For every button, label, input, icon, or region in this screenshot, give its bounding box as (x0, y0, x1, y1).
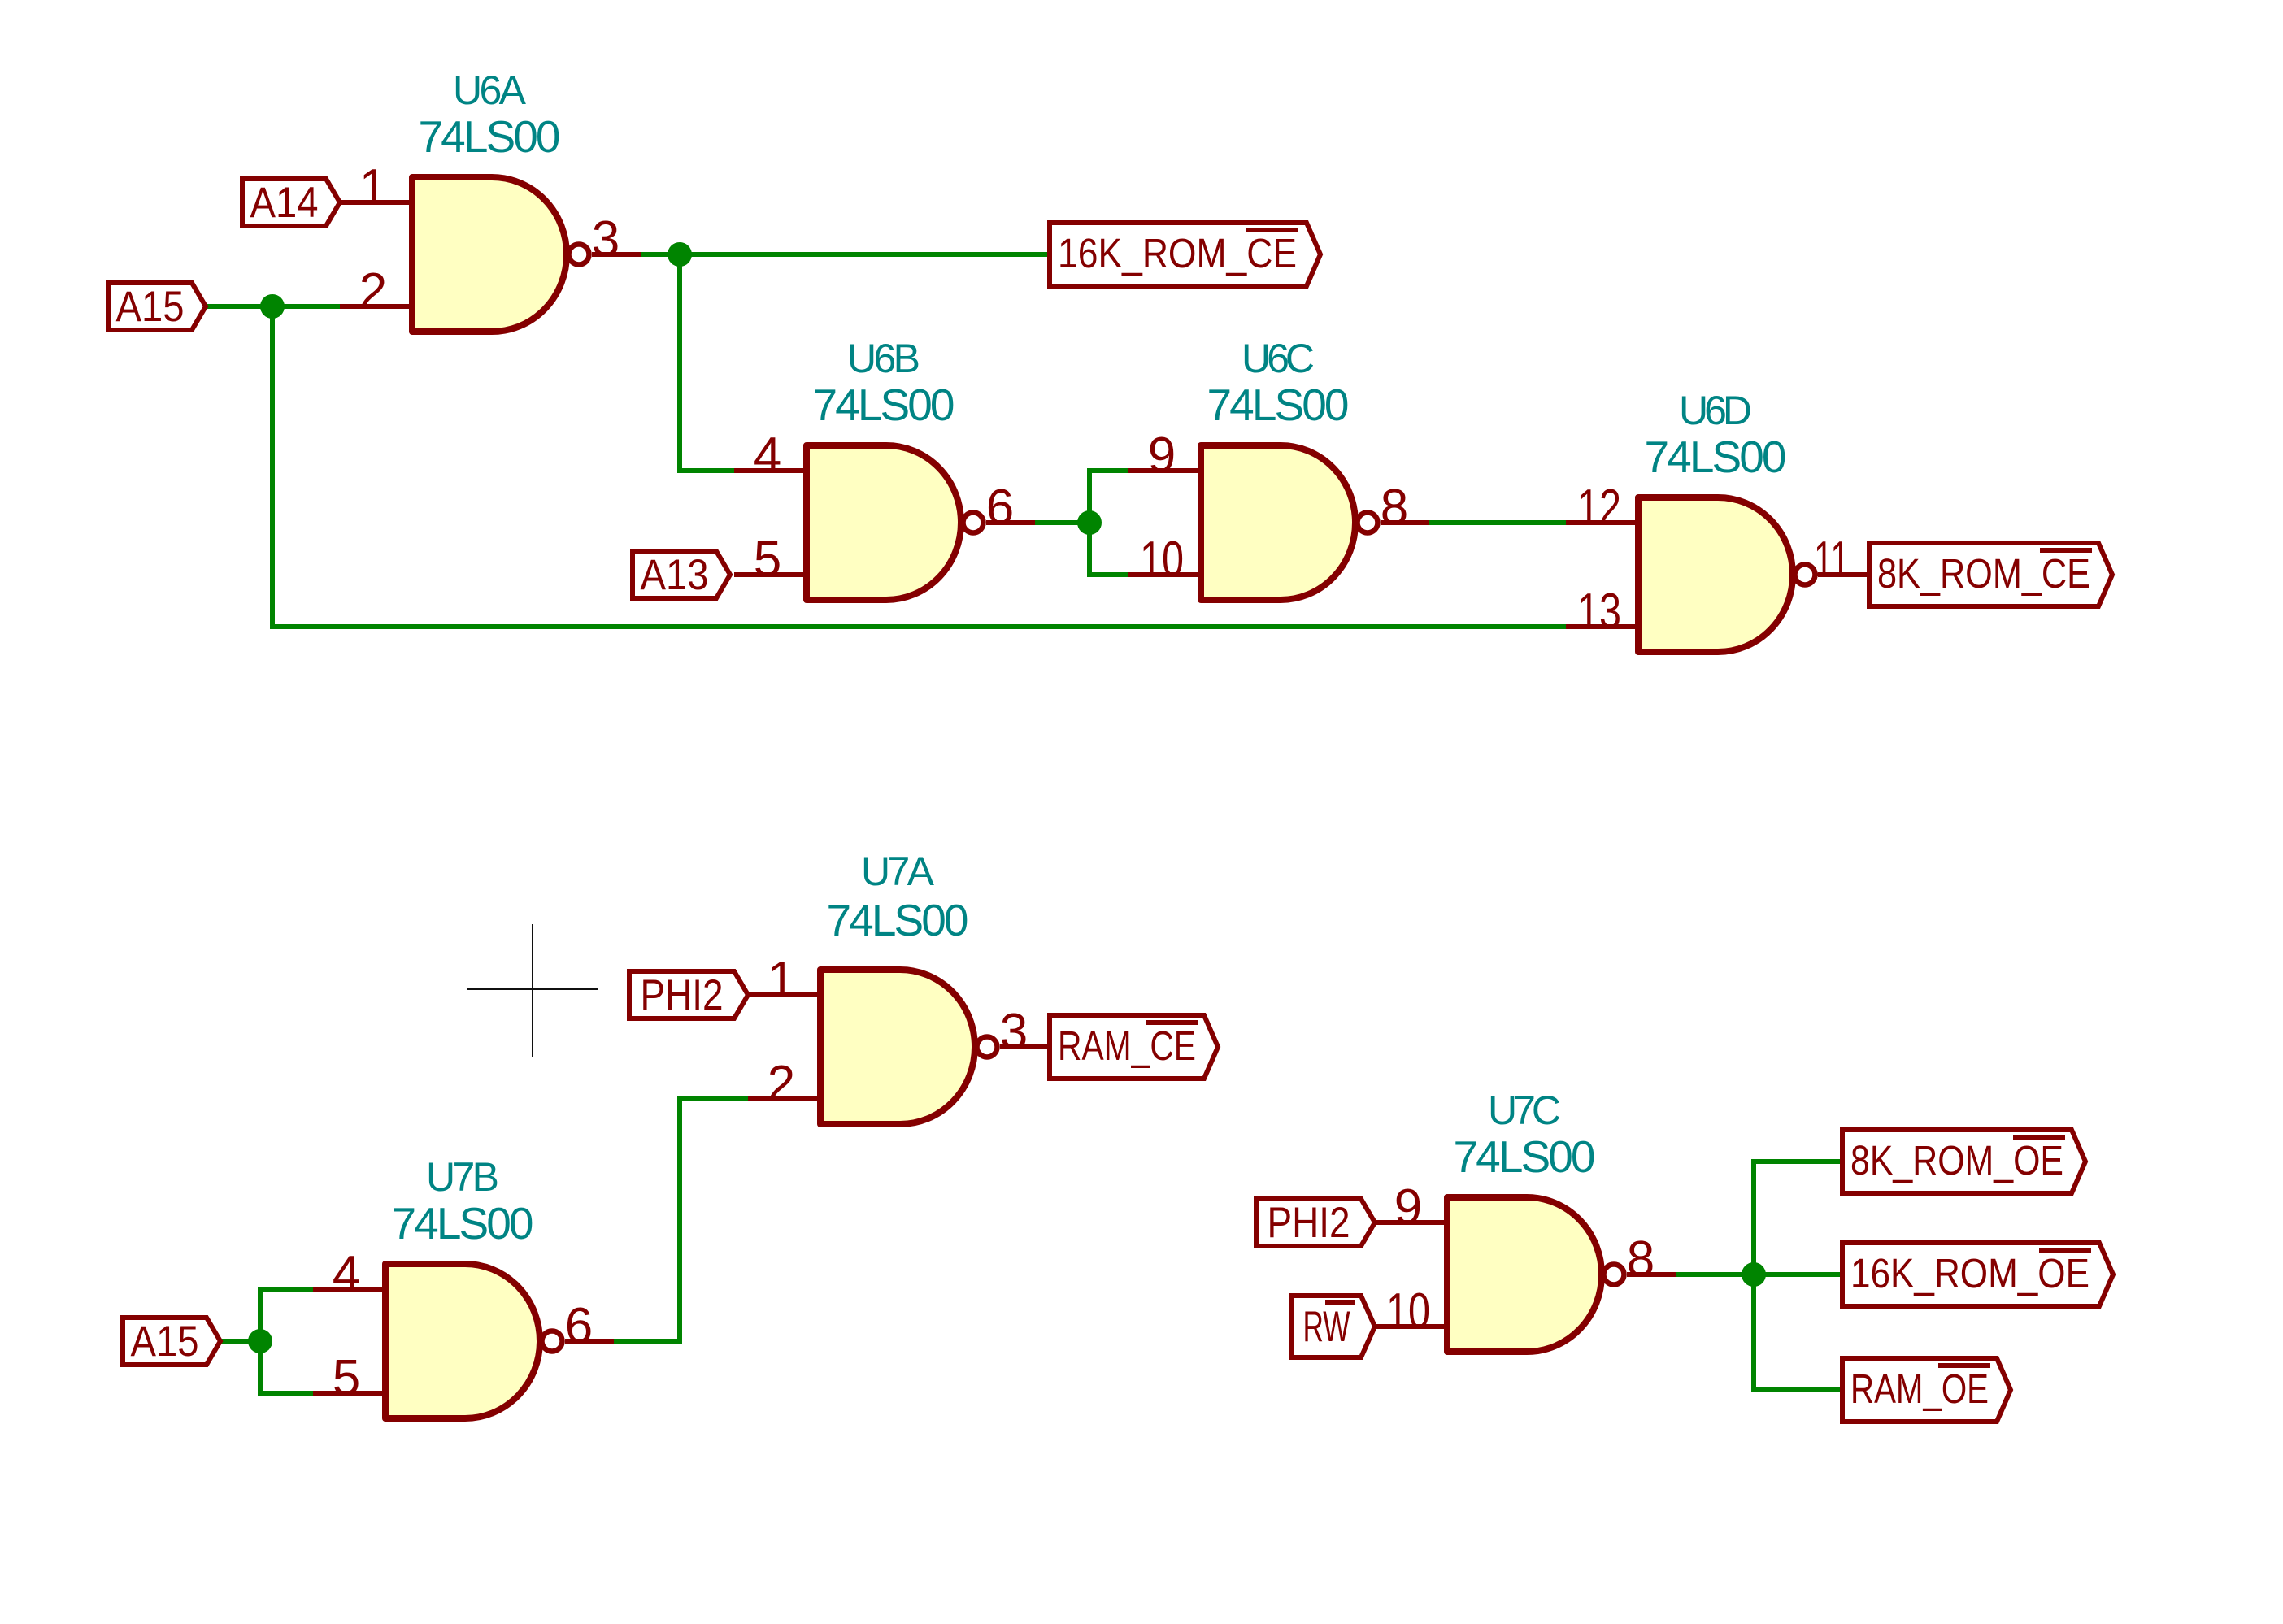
svg-text:6: 6 (565, 1298, 593, 1354)
svg-text:U7B: U7B (426, 1154, 499, 1200)
svg-text:U7C: U7C (1488, 1088, 1561, 1133)
svg-text:4: 4 (333, 1246, 360, 1302)
svg-text:8: 8 (1627, 1231, 1655, 1287)
svg-text:3: 3 (1000, 1004, 1028, 1060)
svg-text:16K_ROM_CE: 16K_ROM_CE (1058, 230, 1297, 276)
svg-text:74LS00: 74LS00 (827, 895, 969, 945)
svg-text:3: 3 (592, 211, 620, 267)
svg-text:2: 2 (768, 1056, 795, 1112)
svg-text:74LS00: 74LS00 (392, 1198, 534, 1248)
svg-text:74LS00: 74LS00 (1454, 1131, 1596, 1182)
svg-text:A15: A15 (116, 283, 185, 331)
svg-text:6: 6 (986, 480, 1014, 536)
svg-text:12: 12 (1577, 480, 1621, 536)
svg-text:74LS00: 74LS00 (419, 111, 561, 162)
svg-text:8K_ROM_CE: 8K_ROM_CE (1877, 550, 2090, 597)
svg-text:2: 2 (359, 263, 387, 319)
svg-text:1: 1 (768, 952, 795, 1008)
svg-text:1: 1 (359, 159, 387, 215)
svg-text:A15: A15 (131, 1318, 199, 1366)
svg-text:A14: A14 (250, 179, 319, 227)
svg-text:PHI2: PHI2 (1268, 1199, 1350, 1247)
svg-text:74LS00: 74LS00 (1207, 380, 1350, 430)
svg-text:8: 8 (1381, 480, 1408, 536)
svg-text:11: 11 (1814, 532, 1850, 588)
svg-text:U6D: U6D (1679, 388, 1752, 433)
svg-text:5: 5 (754, 532, 781, 588)
svg-text:9: 9 (1148, 428, 1176, 484)
svg-text:U7A: U7A (861, 849, 935, 894)
svg-text:U6C: U6C (1242, 336, 1315, 381)
svg-text:10: 10 (1386, 1283, 1430, 1340)
svg-text:U6B: U6B (847, 336, 920, 381)
svg-text:10: 10 (1140, 532, 1184, 588)
svg-text:8K_ROM_OE: 8K_ROM_OE (1850, 1137, 2063, 1183)
svg-text:PHI2: PHI2 (641, 971, 724, 1019)
svg-text:16K_ROM_OE: 16K_ROM_OE (1850, 1250, 2089, 1296)
svg-text:U6A: U6A (453, 67, 527, 113)
svg-text:RAM_CE: RAM_CE (1058, 1023, 1196, 1069)
svg-text:RW: RW (1303, 1303, 1350, 1351)
svg-text:74LS00: 74LS00 (1645, 432, 1787, 482)
svg-text:RAM_OE: RAM_OE (1850, 1366, 1989, 1412)
svg-text:5: 5 (333, 1350, 360, 1406)
svg-text:9: 9 (1394, 1179, 1422, 1235)
svg-text:13: 13 (1577, 584, 1621, 640)
svg-text:4: 4 (754, 428, 781, 484)
svg-text:A13: A13 (641, 551, 709, 599)
svg-text:74LS00: 74LS00 (813, 380, 955, 430)
